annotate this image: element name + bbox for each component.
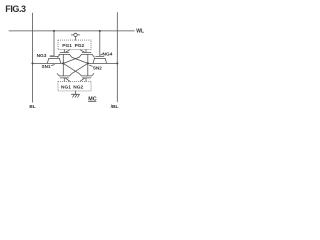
svg-text:FIG.3: FIG.3 [5, 4, 26, 14]
supply terminal ticks [71, 34, 74, 36]
ground stem [74, 91, 76, 94]
junction dot BL-SN1 wire [31, 62, 33, 64]
ground symbol [71, 94, 79, 97]
dashed box NG pair [58, 81, 91, 91]
wire NG1 drain to node SN1 [62, 63, 64, 76]
junction dot WL-NG4 gate [99, 30, 101, 32]
svg-text:SN2: SN2 [93, 65, 102, 70]
svg-text:SN1: SN1 [42, 64, 51, 69]
wire WL to NG4 gate [99, 31, 101, 57]
wire cross-couple NG1 gate to SN2 [63, 63, 81, 76]
junction dot /BL-SN2 wire [116, 62, 118, 64]
svg-text:NG4: NG4 [103, 51, 113, 57]
wire WL to NG3 gate [53, 31, 55, 57]
dashed box PG pair [58, 40, 91, 50]
svg-text:PG1: PG1 [62, 43, 72, 49]
leader SN2 [90, 65, 93, 66]
transistor PG2 [80, 50, 94, 58]
supply terminal stem [74, 37, 76, 41]
transistor NG1 [57, 74, 70, 82]
wire BL to node SN1 [33, 62, 64, 64]
wire cross-couple NG2 gate to SN1 [70, 63, 88, 76]
junction dot WL-NG3 gate [53, 30, 55, 32]
transistor PG1 [58, 50, 70, 58]
wire cross-couple PG1 gate to SN2 [63, 55, 81, 64]
svg-text:NG3: NG3 [37, 53, 47, 59]
node SN2 junction dot [87, 62, 89, 64]
underline MC [88, 101, 96, 103]
wire BL bit line [32, 13, 34, 102]
leader NG4 [101, 54, 103, 55]
svg-text:NG1: NG1 [61, 84, 71, 90]
transistor NG4 [93, 56, 107, 63]
svg-text:BL: BL [29, 104, 35, 109]
wire WL word line [9, 30, 135, 32]
svg-text:/BL: /BL [111, 104, 119, 110]
node SN1 junction dot [62, 62, 64, 64]
svg-text:PG2: PG2 [75, 43, 85, 49]
transistor NG3 [47, 56, 61, 63]
leader NG3 [50, 55, 53, 57]
svg-text:NG2: NG2 [73, 84, 83, 90]
leader SN1 [51, 64, 54, 67]
svg-text:WL: WL [136, 29, 144, 35]
wire cross-couple PG2 gate to SN1 [70, 55, 88, 64]
wire NG2 drain to node SN2 [87, 63, 89, 76]
wire PG2 drain to node SN2 [87, 55, 89, 64]
wire PG1 drain to node SN1 [62, 55, 64, 64]
wire node SN2 to /BL [88, 62, 118, 64]
wire /BL bit line complement [116, 13, 118, 102]
supply terminal circle [74, 33, 77, 36]
transistor NG2 [80, 74, 94, 82]
